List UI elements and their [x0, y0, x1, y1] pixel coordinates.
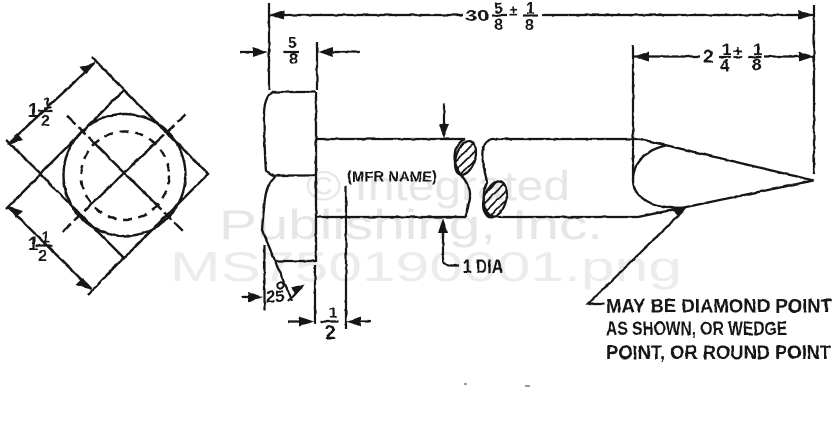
svg-text:MAY BE DIAMOND POINT: MAY BE DIAMOND POINT — [606, 296, 832, 318]
svg-text:AS SHOWN, OR WEDGE: AS SHOWN, OR WEDGE — [606, 318, 787, 340]
svg-text:2: 2 — [38, 248, 47, 265]
svg-text:8: 8 — [289, 51, 298, 68]
svg-text:2: 2 — [41, 113, 50, 130]
svg-text:8: 8 — [752, 55, 761, 74]
svg-text:1 DIA: 1 DIA — [463, 257, 503, 278]
svg-text:2: 2 — [703, 47, 714, 68]
svg-text:1: 1 — [41, 230, 50, 247]
svg-text:±: ± — [733, 43, 742, 62]
svg-text:POINT, OR ROUND POINT: POINT, OR ROUND POINT — [606, 342, 831, 364]
svg-text:25: 25 — [266, 288, 284, 306]
svg-text:Publishing, Inc.: Publishing, Inc. — [219, 201, 603, 248]
svg-text:30: 30 — [465, 8, 489, 25]
svg-text:8: 8 — [494, 17, 503, 34]
svg-text:2: 2 — [325, 323, 336, 344]
svg-text:MS750190001.png: MS750190001.png — [170, 243, 682, 290]
svg-text:(MFR NAME): (MFR NAME) — [347, 169, 437, 186]
svg-text:1: 1 — [28, 101, 39, 122]
svg-text:4: 4 — [720, 56, 730, 75]
svg-text:8: 8 — [525, 17, 534, 34]
svg-text:±: ± — [509, 3, 517, 20]
svg-text:5: 5 — [288, 35, 297, 52]
svg-text:1: 1 — [329, 305, 337, 322]
